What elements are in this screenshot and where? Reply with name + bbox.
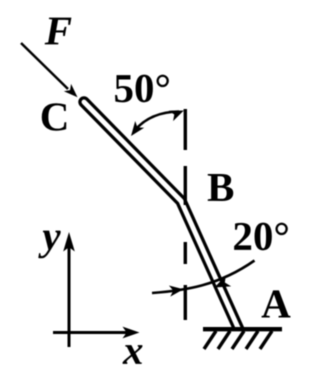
ground hatch 1 xyxy=(204,331,216,349)
force F arrowhead xyxy=(64,84,78,97)
mask below ground xyxy=(198,327,298,347)
ground line at support A xyxy=(203,327,282,331)
50-degree arc arrowhead at dashed line xyxy=(169,111,184,122)
y axis line xyxy=(68,246,71,347)
50-degree arc arrowhead at bar xyxy=(131,121,144,136)
20-degree angle arc xyxy=(152,261,255,294)
label x xyxy=(123,345,143,364)
ground hatch 4 xyxy=(246,331,258,349)
ground hatch 2 xyxy=(218,331,230,349)
label C xyxy=(42,103,66,130)
20-degree arrowhead at dashed line xyxy=(169,285,184,296)
x axis arrowhead xyxy=(123,327,140,339)
label A xyxy=(262,290,291,317)
50-degree angle arc xyxy=(134,112,180,133)
force F arrow line xyxy=(21,43,68,89)
label 20 degrees xyxy=(234,223,288,251)
ground hatch 3 xyxy=(232,331,244,349)
ground hatch 5 xyxy=(260,331,272,349)
label y xyxy=(38,231,60,259)
bar C-B-A white core xyxy=(84,102,239,331)
label F xyxy=(45,18,72,45)
x axis line xyxy=(53,331,128,334)
label B xyxy=(208,174,234,201)
label 50 degrees xyxy=(115,75,169,103)
vertical dashed reference line through B xyxy=(184,109,187,320)
20-degree arrowhead at bar xyxy=(215,275,232,287)
bar C-B-A outer outline xyxy=(84,102,240,332)
y axis arrowhead xyxy=(63,232,75,252)
